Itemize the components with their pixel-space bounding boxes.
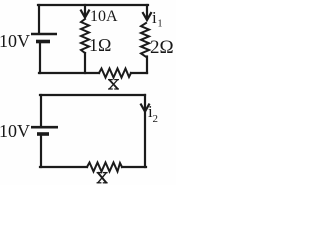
battery V1 10V: short thick plate [36,40,50,44]
battery V1 10V: long plate [31,33,57,36]
resistor R1 1-ohm (vertical zigzag, middle branch) [81,19,89,53]
svg-text:10V: 10V [0,31,30,51]
svg-text:1Ω: 1Ω [89,35,111,55]
battery V2 10V: long plate [31,126,58,129]
resistor R3 x (horizontal zigzag, bottom of top circuit) [99,69,131,78]
value label x for resistor R3 [109,80,119,89]
wire: top horizontal of bottom circuit [40,94,145,96]
svg-text:2Ω: 2Ω [150,37,174,58]
wire: bottom-left horizontal to resistor x [40,166,87,168]
resistor R2 2-ohm (vertical zigzag, right branch) [141,23,149,57]
current arrow 10A (down middle branch) [84,5,86,15]
wire: middle branch below R1 to bottom wire [84,53,86,73]
wire: bottom-right horizontal from resistor x to right branch [131,72,147,74]
resistor R4 x (horizontal zigzag, bottom of bottom circuit) [87,163,122,172]
wire: left vertical from battery V1 to bottom wire [39,43,41,73]
wire: left vertical from battery V2 to bottom wire [40,136,42,167]
battery V2 10V: short thick plate [37,132,49,136]
svg-text:10A: 10A [90,8,118,25]
wire: bottom-right horizontal from resistor x to right side [122,166,146,168]
svg-text:10V: 10V [0,121,30,141]
wire: left vertical from top wire to battery V1 [38,5,40,33]
wire: right branch below R2 to bottom wire [146,57,148,74]
value label x for resistor R4 [97,173,107,183]
svg-text:1: 1 [158,19,163,30]
wire: left vertical from top wire to battery V2 [40,95,42,126]
current arrow i1 (down right branch) [146,5,148,17]
wire: bottom-left horizontal to resistor x [39,72,99,74]
wire: top horizontal (battery + to node, to 2-ohm branch) [38,4,148,6]
svg-text:i: i [152,8,157,27]
svg-text:2: 2 [153,113,159,125]
wire: right vertical of bottom circuit [144,95,146,167]
current arrow i2 (down right side) [141,105,149,112]
